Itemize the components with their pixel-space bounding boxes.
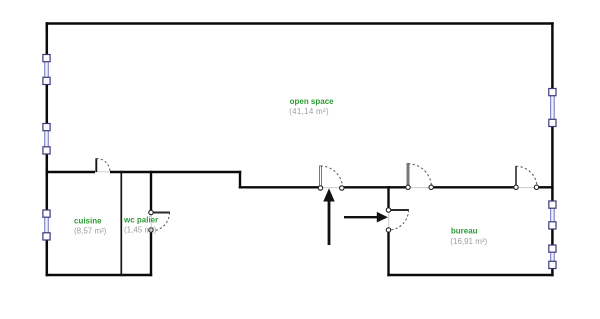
wire : left exterior wall <box>46 22 49 276</box>
node : threshold line of door D3 <box>514 187 539 189</box>
svg-text:(8,57 m²): (8,57 m²) <box>74 226 107 235</box>
door bureau : leaf and swing <box>386 208 409 232</box>
wire : top exterior wall <box>46 22 554 25</box>
wire : wall between cuisine and wc palier <box>120 171 122 276</box>
wire : wc palier right wall lower part <box>150 231 152 276</box>
node label wc palier <box>123 215 158 234</box>
wire : interior lower wall segment A <box>239 186 319 188</box>
wire : bureau left wall upper part <box>387 186 389 209</box>
node label cuisine <box>74 216 107 235</box>
window W5 right wall bureau upper <box>549 201 556 229</box>
node : threshold line of cuisine door <box>95 171 110 173</box>
svg-text:(41,14 m²): (41,14 m²) <box>289 107 329 116</box>
door D3 : leaf and swing <box>514 166 539 190</box>
door D2 : leaf and swing <box>406 163 434 190</box>
window W1 left wall top <box>43 55 50 85</box>
wire : bureau left wall lower part <box>387 231 389 276</box>
window W3 left wall cuisine <box>43 210 50 240</box>
door entrance D1 : leaf and swing <box>318 166 344 191</box>
node : threshold line of bureau door <box>388 210 390 230</box>
svg-text:open space: open space <box>290 97 335 106</box>
wire : interior wall upper segment (cuisine door to jog) <box>110 171 241 173</box>
window W6 right wall bureau lower <box>549 245 556 269</box>
arrow up entrance <box>323 188 334 245</box>
node label bureau <box>450 227 487 246</box>
svg-text:(1,45 m²): (1,45 m²) <box>124 225 157 234</box>
wire : bottom wall under bureau <box>387 274 553 277</box>
wire : bottom wall under cuisine and wc palier <box>46 274 153 277</box>
wire : interior wall upper-left segment (left of cuisine door) <box>46 171 95 173</box>
wire : jog between wall levels <box>239 171 241 189</box>
node : threshold line of door D2 <box>406 187 433 189</box>
wire : interior lower wall segment C <box>433 186 514 188</box>
wire : interior lower wall segment B <box>343 186 406 188</box>
window W2 left wall middle <box>43 124 50 155</box>
wire : right exterior wall <box>551 22 554 276</box>
svg-text:(16,91 m²): (16,91 m²) <box>450 237 487 246</box>
svg-text:bureau: bureau <box>451 227 478 236</box>
svg-text:cuisine: cuisine <box>74 216 102 225</box>
node : threshold line of wc palier door <box>150 213 152 231</box>
window W4 right wall open space <box>549 89 556 127</box>
door wc palier : leaf and swing <box>149 210 170 232</box>
svg-text:wc palier: wc palier <box>123 215 158 224</box>
wire : interior lower wall segment D <box>539 186 554 188</box>
node : threshold line of entrance door <box>319 187 343 189</box>
node label open space <box>289 97 334 116</box>
wire : wc palier right wall upper part <box>150 171 152 211</box>
arrow right bureau <box>344 212 388 223</box>
door cuisine : leaf <box>96 158 110 172</box>
